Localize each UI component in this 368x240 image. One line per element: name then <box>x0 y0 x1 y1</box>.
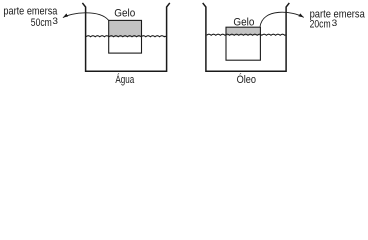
svg-text:Água: Água <box>115 73 134 86</box>
svg-text:Gelo: Gelo <box>233 16 254 28</box>
arrow 2 (to parte emersa 20cm3) <box>260 12 304 26</box>
ice block 2 emersed part (gray fill) <box>227 28 260 36</box>
svg-text:Óleo: Óleo <box>237 73 256 86</box>
oil surface wavy line <box>207 34 286 35</box>
svg-text:20cm: 20cm <box>310 19 331 31</box>
arrow 1 (to parte emersa 50cm3) <box>63 13 109 20</box>
ice block 1 emersed part (gray fill) <box>109 21 141 37</box>
beaker 2 (oil) container outline <box>203 3 290 71</box>
svg-text:50cm: 50cm <box>31 17 52 29</box>
ice block 1 outline <box>109 20 142 53</box>
svg-text:3: 3 <box>52 16 58 26</box>
svg-text:Gelo: Gelo <box>114 7 135 19</box>
ice block 2 outline <box>226 27 260 60</box>
beaker 1 (water) container outline <box>82 3 169 71</box>
svg-text:parte emersa: parte emersa <box>3 5 57 17</box>
svg-text:3: 3 <box>332 18 338 28</box>
water surface wavy line <box>86 36 166 37</box>
